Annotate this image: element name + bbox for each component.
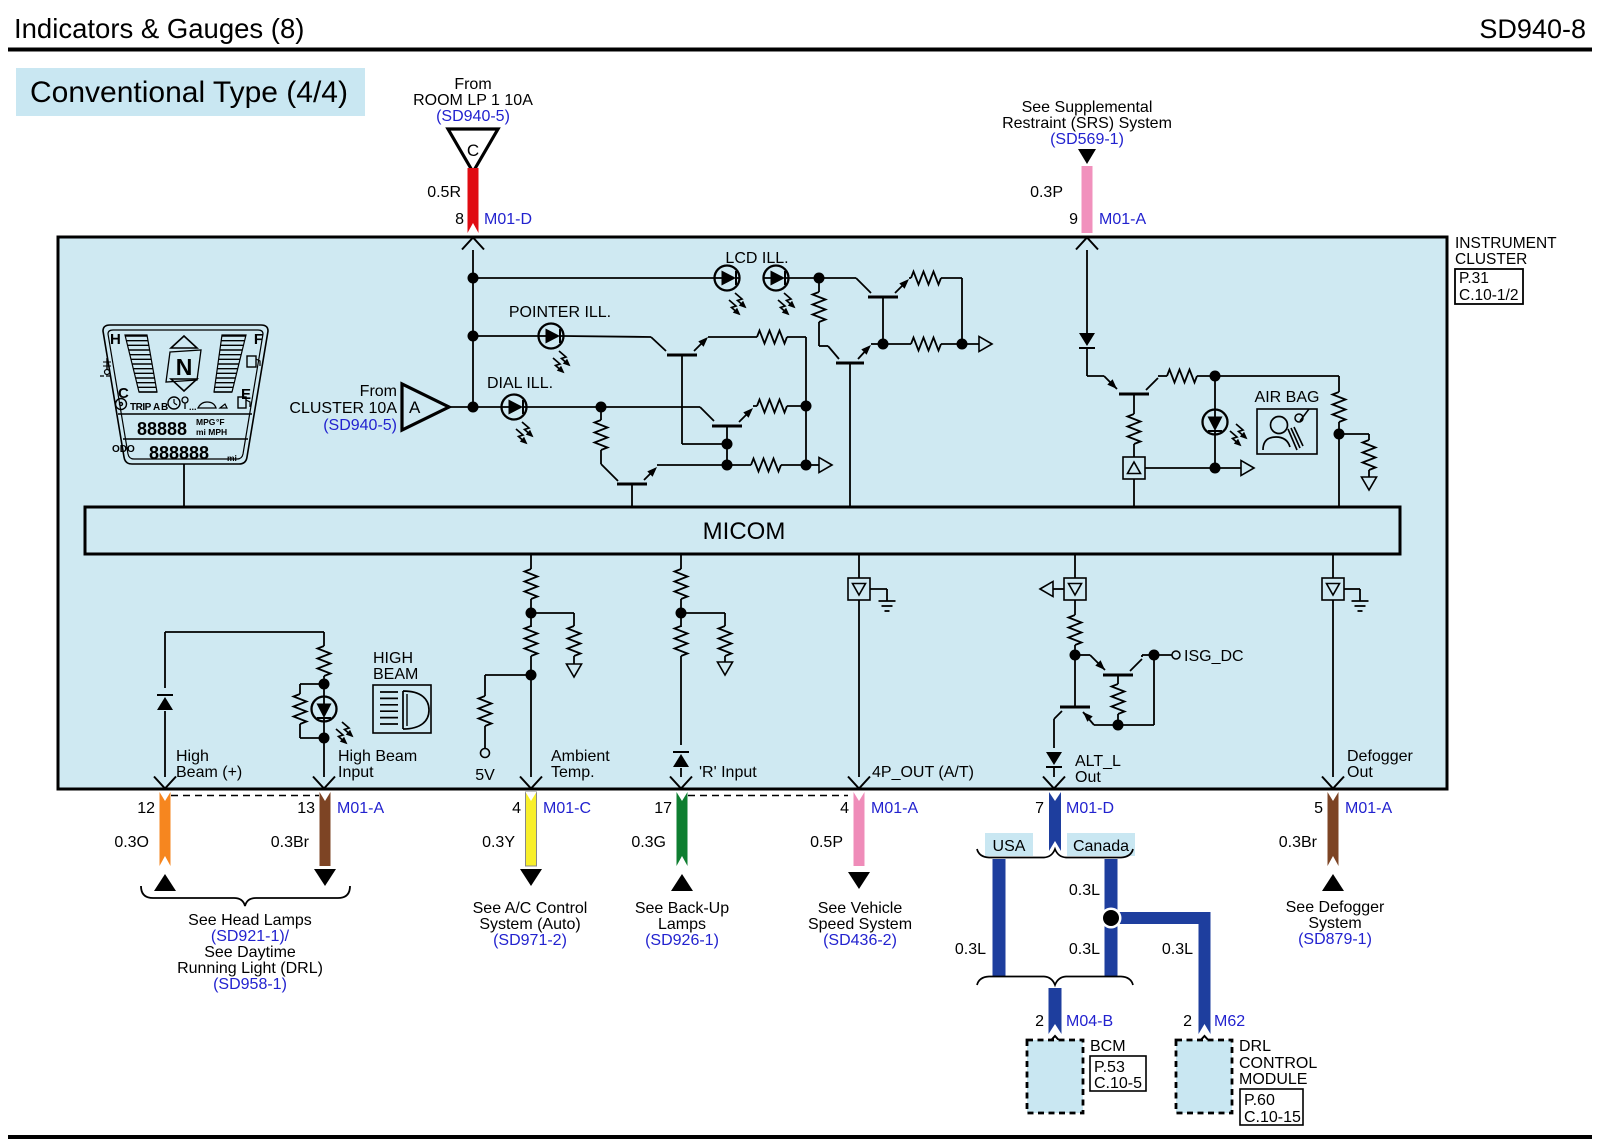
svg-text:M01-A: M01-A [871, 800, 918, 817]
svg-text:0.3G: 0.3G [631, 834, 666, 851]
svg-text:0.3P: 0.3P [1030, 184, 1063, 201]
svg-text:M01-D: M01-D [484, 211, 532, 228]
svg-text:AIR BAG: AIR BAG [1255, 389, 1320, 406]
svg-text:From: From [360, 383, 397, 400]
svg-text:(SD926-1): (SD926-1) [645, 932, 719, 949]
svg-text:13: 13 [297, 800, 315, 817]
svg-text:M01-A: M01-A [1099, 211, 1146, 228]
svg-text:4P_OUT (A/T): 4P_OUT (A/T) [872, 764, 974, 781]
svg-text:5: 5 [1314, 800, 1323, 817]
svg-text:0.5R: 0.5R [427, 184, 461, 201]
svg-text:(SD971-2): (SD971-2) [493, 932, 567, 949]
svg-text:Lamps: Lamps [658, 916, 706, 933]
svg-text:...: ... [189, 402, 197, 412]
svg-text:CONTROL: CONTROL [1239, 1055, 1317, 1072]
svg-text:See Daytime: See Daytime [204, 944, 296, 961]
svg-text:A: A [409, 398, 421, 417]
svg-text:(SD569-1): (SD569-1) [1050, 131, 1124, 148]
svg-text:See Supplemental: See Supplemental [1022, 99, 1153, 116]
svg-text:0.3Br: 0.3Br [271, 834, 310, 851]
svg-text:LCD ILL.: LCD ILL. [725, 250, 788, 267]
svg-text:Out: Out [1075, 769, 1101, 786]
svg-text:Indicators & Gauges (8): Indicators & Gauges (8) [14, 13, 304, 44]
svg-text:B: B [161, 402, 168, 413]
svg-text:ODO: ODO [112, 444, 135, 455]
svg-text:See Head Lamps: See Head Lamps [188, 912, 312, 929]
svg-text:Defogger: Defogger [1347, 748, 1413, 765]
svg-text:P.53: P.53 [1094, 1059, 1125, 1076]
svg-text:M01-A: M01-A [337, 800, 384, 817]
svg-text:M01-D: M01-D [1066, 800, 1114, 817]
svg-text:Out: Out [1347, 764, 1373, 781]
svg-text:System: System [1308, 915, 1361, 932]
svg-text:BEAM: BEAM [373, 666, 418, 683]
svg-text:Speed System: Speed System [808, 916, 912, 933]
svg-text:ISG_DC: ISG_DC [1184, 648, 1244, 665]
svg-text:CLUSTER: CLUSTER [1455, 251, 1527, 268]
svg-text:888888: 888888 [149, 443, 209, 463]
svg-text:°F: °F [216, 417, 225, 427]
svg-text:0.3L: 0.3L [1162, 941, 1193, 958]
svg-text:0.3Br: 0.3Br [1279, 834, 1318, 851]
svg-text:See Vehicle: See Vehicle [818, 900, 903, 917]
svg-text:BCM: BCM [1090, 1038, 1126, 1055]
svg-text:5V: 5V [475, 767, 495, 784]
svg-text:CLUSTER 10A: CLUSTER 10A [289, 400, 397, 417]
svg-text:'R' Input: 'R' Input [699, 764, 757, 781]
svg-text:POINTER ILL.: POINTER ILL. [509, 304, 611, 321]
svg-text:MICOM: MICOM [703, 518, 786, 545]
svg-text:2: 2 [1035, 1013, 1044, 1030]
svg-text:2: 2 [1183, 1013, 1192, 1030]
svg-text:(SD940-5): (SD940-5) [323, 417, 397, 434]
svg-text:0.3L: 0.3L [1069, 941, 1100, 958]
svg-text:(SD436-2): (SD436-2) [823, 932, 897, 949]
svg-text:H: H [110, 331, 121, 348]
svg-text:Restraint (SRS) System: Restraint (SRS) System [1002, 115, 1172, 132]
svg-text:(SD958-1): (SD958-1) [213, 976, 287, 993]
svg-text:0.5P: 0.5P [810, 834, 843, 851]
svg-text:From: From [454, 76, 491, 93]
svg-text:MPG: MPG [196, 417, 216, 427]
svg-text:See A/C Control: See A/C Control [473, 900, 588, 917]
svg-text:DRL: DRL [1239, 1038, 1271, 1055]
svg-text:7: 7 [1035, 800, 1044, 817]
svg-text:mi MPH: mi MPH [196, 427, 227, 437]
svg-text:88888: 88888 [137, 419, 187, 439]
svg-text:USA: USA [993, 838, 1026, 855]
svg-text:HIGH: HIGH [373, 650, 413, 667]
svg-text:High Beam: High Beam [338, 748, 417, 765]
svg-text:System (Auto): System (Auto) [479, 916, 580, 933]
svg-text:INSTRUMENT: INSTRUMENT [1455, 235, 1557, 252]
svg-text:MODULE: MODULE [1239, 1071, 1307, 1088]
svg-text:mi: mi [227, 453, 237, 463]
svg-text:P.31: P.31 [1459, 270, 1489, 287]
svg-text:ROOM LP 1 10A: ROOM LP 1 10A [413, 92, 533, 109]
svg-text:N: N [176, 354, 193, 380]
svg-text:4: 4 [512, 800, 521, 817]
svg-text:(SD921-1)/: (SD921-1)/ [211, 928, 290, 945]
svg-text:F: F [254, 331, 263, 348]
svg-text:C: C [467, 141, 479, 160]
svg-text:P.60: P.60 [1244, 1092, 1275, 1109]
svg-text:SD940-8: SD940-8 [1479, 14, 1586, 44]
svg-text:4: 4 [840, 800, 849, 817]
svg-text:(SD879-1): (SD879-1) [1298, 931, 1372, 948]
svg-text:Conventional Type (4/4): Conventional Type (4/4) [30, 76, 348, 109]
svg-text:C.10-15: C.10-15 [1244, 1109, 1301, 1126]
svg-text:8: 8 [455, 211, 464, 228]
svg-text:0.3O: 0.3O [114, 834, 149, 851]
svg-text:C.10-1/2: C.10-1/2 [1459, 287, 1518, 304]
svg-text:Input: Input [338, 764, 374, 781]
svg-text:Temp.: Temp. [551, 764, 595, 781]
svg-text:0.3Y: 0.3Y [482, 834, 515, 851]
svg-text:17: 17 [654, 800, 672, 817]
svg-text:C.10-5: C.10-5 [1094, 1075, 1142, 1092]
svg-text:M01-C: M01-C [543, 800, 591, 817]
svg-text:Running Light (DRL): Running Light (DRL) [177, 960, 323, 977]
svg-text:ALT_L: ALT_L [1075, 753, 1121, 770]
svg-text:(SD940-5): (SD940-5) [436, 108, 510, 125]
svg-text:TRIP: TRIP [130, 402, 152, 413]
svg-text:A: A [153, 402, 160, 413]
svg-text:DIAL ILL.: DIAL ILL. [487, 375, 553, 392]
svg-text:0.3L: 0.3L [955, 941, 986, 958]
svg-text:M01-A: M01-A [1345, 800, 1392, 817]
svg-text:See Defogger: See Defogger [1286, 899, 1385, 916]
svg-text:Beam (+): Beam (+) [176, 764, 242, 781]
svg-text:Ambient: Ambient [551, 748, 610, 765]
svg-text:High: High [176, 748, 209, 765]
svg-text:M62: M62 [1214, 1013, 1245, 1030]
svg-text:See Back-Up: See Back-Up [635, 900, 729, 917]
svg-text:0.3L: 0.3L [1069, 882, 1100, 899]
svg-text:M04-B: M04-B [1066, 1013, 1113, 1030]
svg-text:12: 12 [137, 800, 155, 817]
svg-text:9: 9 [1069, 211, 1078, 228]
svg-text:Canada: Canada [1073, 838, 1129, 855]
